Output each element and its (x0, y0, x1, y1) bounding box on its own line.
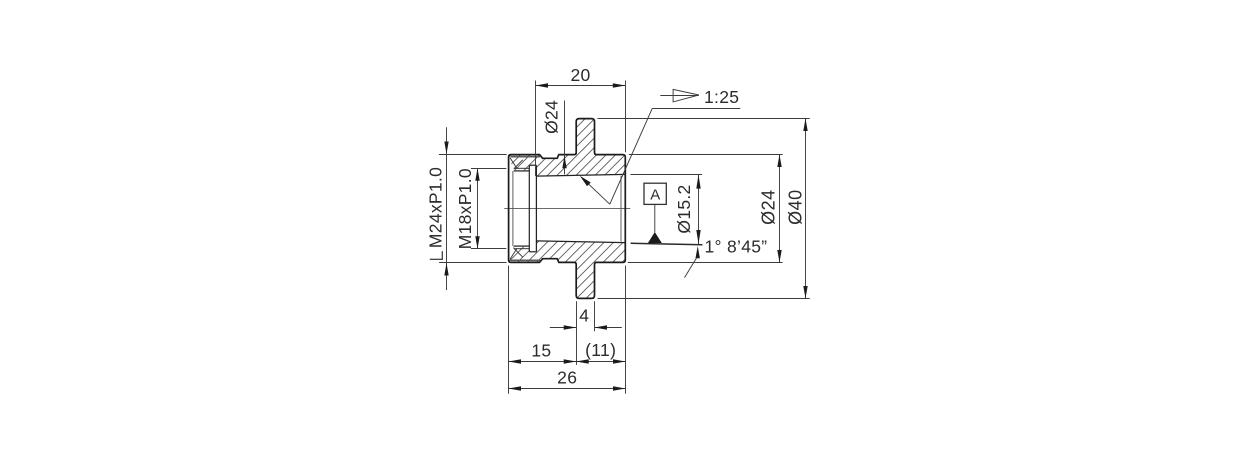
thread end line (528, 165, 530, 252)
hatch upper half section (509, 119, 625, 177)
svg-text:4: 4 (579, 305, 589, 325)
dimension 4 left arrow (564, 325, 577, 329)
datum A box (644, 183, 666, 204)
svg-text:26: 26 (557, 367, 577, 387)
dimension 20 line (536, 85, 626, 87)
dimension 4 right tail (595, 327, 622, 329)
dimension Ø15.2 top extension line (630, 174, 702, 176)
dimension 26 right arrow (613, 386, 626, 390)
dimension Ø40 top extension line (598, 118, 810, 120)
dimension 26 left arrow (509, 386, 522, 390)
dimension 15 right arrow (564, 359, 577, 363)
dimension 26 line (509, 388, 626, 390)
taper bore cone line bottom (536, 241, 625, 243)
centerline (part axis) (504, 208, 630, 210)
cone surface extension line (datum line) (631, 243, 703, 245)
bore step face (535, 165, 537, 252)
dimension M24 bottom extension line (439, 262, 507, 264)
svg-text:(11): (11) (585, 340, 616, 360)
taper symbol triangle (673, 89, 699, 102)
dimension Ø40 bottom extension line (598, 298, 810, 300)
dimension Ø40 bottom arrow (803, 286, 807, 299)
L mark below M24 text (441, 251, 443, 259)
svg-text:Ø15.2: Ø15.2 (674, 184, 694, 233)
angle dimension arc tail (685, 258, 697, 278)
thread root line top (thin) (511, 156, 541, 158)
dimension M24 top extension line (439, 154, 507, 156)
datum A triangle (648, 232, 662, 243)
svg-text:1° 8’45”: 1° 8’45” (705, 236, 768, 256)
taper symbol line (660, 95, 699, 97)
svg-text:Ø24: Ø24 (542, 100, 562, 134)
dimension M18 top arrow (475, 168, 479, 181)
dimension Ø15.2 line (698, 175, 700, 244)
svg-text:15: 15 (531, 340, 551, 360)
datum A stem (654, 204, 656, 232)
dimension Ø24 right line (779, 155, 781, 263)
bore entry chamfer bottom (510, 249, 517, 260)
internal thread M18 major line top (thin) (514, 167, 530, 169)
bore entry chamfer edge circle line (512, 171, 514, 246)
dimension Ø24 neck arrow (562, 156, 566, 169)
svg-text:A: A (650, 186, 660, 203)
dimension 20 right arrow (613, 83, 626, 87)
dimension M18xP1.0 line (477, 168, 479, 249)
dimension M18 bottom extension line (471, 248, 506, 250)
dimension 15 and (11) line (509, 361, 626, 363)
dimension 20 left arrow (536, 83, 549, 87)
taper bore cone line top (536, 174, 625, 176)
hatch lower half section (509, 241, 625, 299)
dimension Ø40 line (805, 119, 807, 299)
dimension (11) right arrow (613, 359, 626, 363)
svg-text:Ø40: Ø40 (786, 189, 806, 225)
dimension Ø40 top arrow (803, 119, 807, 132)
taper leader arrow segment (582, 177, 610, 204)
svg-text:M18xP1.0: M18xP1.0 (455, 168, 475, 249)
dimension Ø24 right bottom extension line (628, 262, 783, 264)
dimension Ø15.2 bottom arrow (696, 230, 700, 244)
dimension Ø24 right bottom arrow (777, 250, 781, 263)
svg-text:1:25: 1:25 (704, 87, 739, 107)
dimension Ø15.2 top arrow (696, 175, 700, 189)
dimension M24 bottom arrow (444, 263, 448, 276)
dimension 20 right extension line (625, 81, 627, 153)
angle dimension arrow (696, 246, 700, 258)
dimension 15 left arrow (509, 359, 522, 363)
bottom right extension line (625, 266, 627, 394)
flange right extension line (594, 301, 596, 331)
dimension 4 right arrow (595, 325, 608, 329)
dimension Ø24 right top extension line (629, 154, 783, 156)
taper leader underline (652, 108, 740, 110)
taper bore exit chamfer line (620, 176, 622, 242)
taper leader slanted segment (610, 108, 653, 204)
dimension M18 bottom arrow (475, 236, 479, 249)
bore entry chamfer top (510, 158, 517, 169)
dimension Ø24 right top arrow (777, 155, 781, 168)
taper leader arrowhead (580, 176, 591, 187)
dimension M24xP1.0 line (446, 127, 448, 290)
dimension M24 top arrow (444, 142, 448, 155)
bottom left extension line (508, 266, 510, 394)
internal thread M18 minor line top (514, 170, 530, 172)
dimension 4 left tail (550, 327, 576, 329)
thread relief recess bottom (529, 251, 536, 253)
thread root line bottom (thin) (511, 259, 541, 261)
svg-text:Ø24: Ø24 (759, 189, 779, 225)
svg-text:M24xP1.0: M24xP1.0 (426, 167, 446, 248)
outer profile outline (509, 119, 626, 299)
dimension (11) left arrow (576, 359, 589, 363)
thread relief recess top (529, 164, 536, 166)
internal thread M18 major line bottom (thin) (514, 248, 530, 250)
dimension 20 left extension line (535, 81, 537, 177)
dimension M18 top extension line (471, 168, 506, 170)
internal thread M18 minor line bottom (514, 245, 530, 247)
dimension Ø24 neck line (564, 101, 566, 175)
flange left extension line (576, 301, 578, 365)
svg-text:20: 20 (570, 65, 590, 85)
